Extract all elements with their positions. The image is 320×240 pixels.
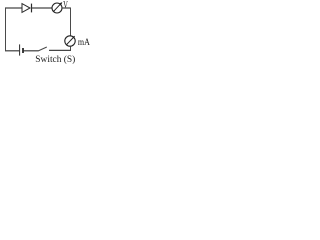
wire: top middle segment [32, 7, 53, 9]
battery cell long electrode [19, 44, 21, 55]
wire: bottom left segment [5, 50, 20, 52]
wire: left vertical [5, 8, 7, 51]
voltmeter V needle [53, 3, 61, 12]
wire: bottom middle segment [23, 50, 38, 52]
diode D1 triangle [22, 4, 30, 13]
milliammeter mA needle [66, 36, 74, 44]
voltmeter V circle [52, 3, 62, 13]
switch S blade [38, 47, 47, 51]
wire: right vertical lower [70, 46, 72, 50]
wire: right vertical upper [70, 8, 72, 36]
svg-text:V: V [63, 0, 68, 11]
diode D1 cathode bar [31, 4, 33, 13]
svg-text:mA: mA [78, 38, 90, 48]
milliammeter mA circle [65, 36, 75, 46]
svg-text:Switch (S): Switch (S) [35, 54, 75, 65]
wire: top left segment [5, 7, 22, 9]
wire: top right segment [62, 7, 71, 9]
wire: bottom right segment [49, 49, 71, 51]
battery cell short electrode [22, 48, 24, 53]
